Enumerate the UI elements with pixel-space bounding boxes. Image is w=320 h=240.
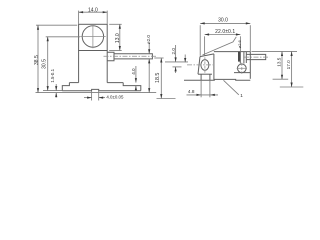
dim 18.5 line <box>148 59 150 93</box>
svg-text:22.0±0.1: 22.0±0.1 <box>215 29 235 35</box>
dim 2.0 shaft top <box>175 45 177 62</box>
left cascade <box>62 83 69 91</box>
inner vertical <box>245 52 247 63</box>
ext bottom right stub <box>157 98 176 100</box>
dim 4.8 line <box>187 94 219 96</box>
svg-text:1.5-0.1: 1.5-0.1 <box>50 68 55 82</box>
circle crosshair horizontal <box>80 36 106 38</box>
dim 13.0 line <box>119 24 121 50</box>
svg-text:14.0: 14.0 <box>88 7 98 13</box>
circle crosshair vertical <box>92 25 94 48</box>
slot circle crosshair h <box>237 67 247 69</box>
head rectangle <box>79 24 108 50</box>
leader dia 2.0 <box>148 43 150 54</box>
small arrow shaft <box>184 55 186 63</box>
1.5 arrows outside <box>55 86 57 91</box>
column left edge <box>78 51 80 83</box>
svg-text:17.0: 17.0 <box>286 60 291 70</box>
rod pin <box>114 54 152 59</box>
svg-text:4.0: 4.0 <box>131 68 136 75</box>
slot circle <box>237 64 246 73</box>
leader 1 <box>224 80 239 95</box>
ext body top right <box>252 50 298 52</box>
ext notch for 4.0+-0.05 <box>91 91 93 101</box>
svg-text:38.5: 38.5 <box>34 55 40 65</box>
dim 22.0 line <box>205 34 241 36</box>
lens circle <box>82 26 103 47</box>
inner pocket line <box>234 72 250 74</box>
slot circle crosshair v <box>241 63 243 74</box>
labels left view <box>34 7 161 99</box>
arrows right view <box>175 22 293 96</box>
left view: part outline <box>62 24 152 91</box>
hole horizontal centerline <box>187 64 213 66</box>
labels right view <box>171 17 291 98</box>
13.5 arrows <box>281 52 283 57</box>
dim 38.5 line <box>37 25 39 92</box>
ext from head top <box>36 24 77 26</box>
dim 4.0 shafts <box>135 66 137 83</box>
right cascade <box>123 83 141 91</box>
prong centerline <box>244 56 270 58</box>
dim 13.5 line <box>281 52 283 80</box>
dimension/extension lines left view <box>36 11 176 101</box>
13.0 arrows <box>119 24 121 29</box>
dim 4.0+-0.05 line <box>84 97 92 99</box>
rod centerline <box>104 55 157 57</box>
right view dims <box>165 23 303 97</box>
leader dia 2.6 <box>203 37 237 55</box>
column right edge <box>106 51 108 83</box>
step surface right <box>107 82 123 84</box>
ext 30.0 right <box>249 25 251 51</box>
ext from circle center <box>46 36 80 38</box>
30.0 arrows <box>200 22 205 24</box>
dim 1.5 arrows shafts <box>55 84 57 91</box>
tab top edge <box>200 54 214 57</box>
ext 22.0 right <box>239 36 241 51</box>
38.5 arrows <box>37 25 39 30</box>
svg-text:4.0±0.05: 4.0±0.05 <box>106 94 124 99</box>
tab left edge <box>198 57 200 75</box>
4.8 arrows <box>197 94 202 96</box>
ext 30.0 left <box>199 25 201 56</box>
4.0 arrows <box>135 78 137 83</box>
ext rod-bottom right <box>154 57 163 59</box>
hole ellipse <box>201 60 209 71</box>
body top edge <box>214 51 250 53</box>
svg-text:1: 1 <box>240 93 243 98</box>
17.0 arrows <box>291 52 293 57</box>
14.0 arrows <box>79 11 84 13</box>
dim 30.0 line <box>200 22 250 24</box>
ext 22.0 left <box>204 36 206 55</box>
svg-text:18.5: 18.5 <box>155 73 161 83</box>
svg-text:2.0: 2.0 <box>171 48 176 55</box>
body right edge <box>249 52 251 79</box>
extra small arrow <box>184 58 186 62</box>
22.0 arrows <box>205 33 210 35</box>
dia2.0 leader arrow <box>148 49 150 54</box>
svg-text:13.5: 13.5 <box>276 57 281 67</box>
bottom long line feet <box>36 92 157 94</box>
bottom profile with recess <box>198 73 212 75</box>
foot sides under tab <box>200 74 202 80</box>
ext 4.8 <box>200 80 202 97</box>
step surface left <box>69 82 78 84</box>
right view centerlines <box>187 57 270 74</box>
dim 20.5 line between views <box>160 58 162 99</box>
svg-text:4.8: 4.8 <box>188 89 195 94</box>
ext head right top/bottom <box>109 23 122 25</box>
right view: part outline <box>184 52 266 81</box>
arrows left view <box>37 11 162 99</box>
svg-text:13.0: 13.0 <box>115 33 121 43</box>
base bottom with notch <box>62 89 141 90</box>
2.0 arrows <box>175 57 177 62</box>
30.5 arrows <box>47 37 49 42</box>
dim 30.5 line <box>47 37 49 91</box>
tab right edge <box>213 54 215 80</box>
18.5 arrows <box>148 59 150 64</box>
ext 13.5 bottom <box>273 78 289 80</box>
svg-text:30.0: 30.0 <box>218 17 228 23</box>
slot filled bar <box>238 52 240 62</box>
4.0+-0.05 arrows <box>87 97 92 99</box>
slot verticals <box>239 52 241 64</box>
svg-text:30.5: 30.5 <box>41 59 47 69</box>
ext head top corners <box>78 11 80 24</box>
dim 2.0 shaft bottom <box>175 67 177 73</box>
hole vertical centerline <box>204 57 206 73</box>
ext base bottom left <box>43 90 62 92</box>
dim 14.0 line <box>79 11 108 13</box>
ext 17.0 bottom <box>280 86 304 88</box>
dim 17.0 line <box>291 52 293 88</box>
body bottom edge with shallow recess <box>184 78 250 81</box>
svg-text:⌀2.0: ⌀2.0 <box>146 35 151 45</box>
ext 2.0 upper <box>165 61 188 63</box>
prong <box>246 54 265 59</box>
svg-text:⌀2.6: ⌀2.6 <box>237 39 242 48</box>
ext 2.0 lower <box>173 66 182 68</box>
rod flange <box>107 52 114 60</box>
centerlines <box>80 25 156 56</box>
between-views dim arrows <box>160 58 162 63</box>
